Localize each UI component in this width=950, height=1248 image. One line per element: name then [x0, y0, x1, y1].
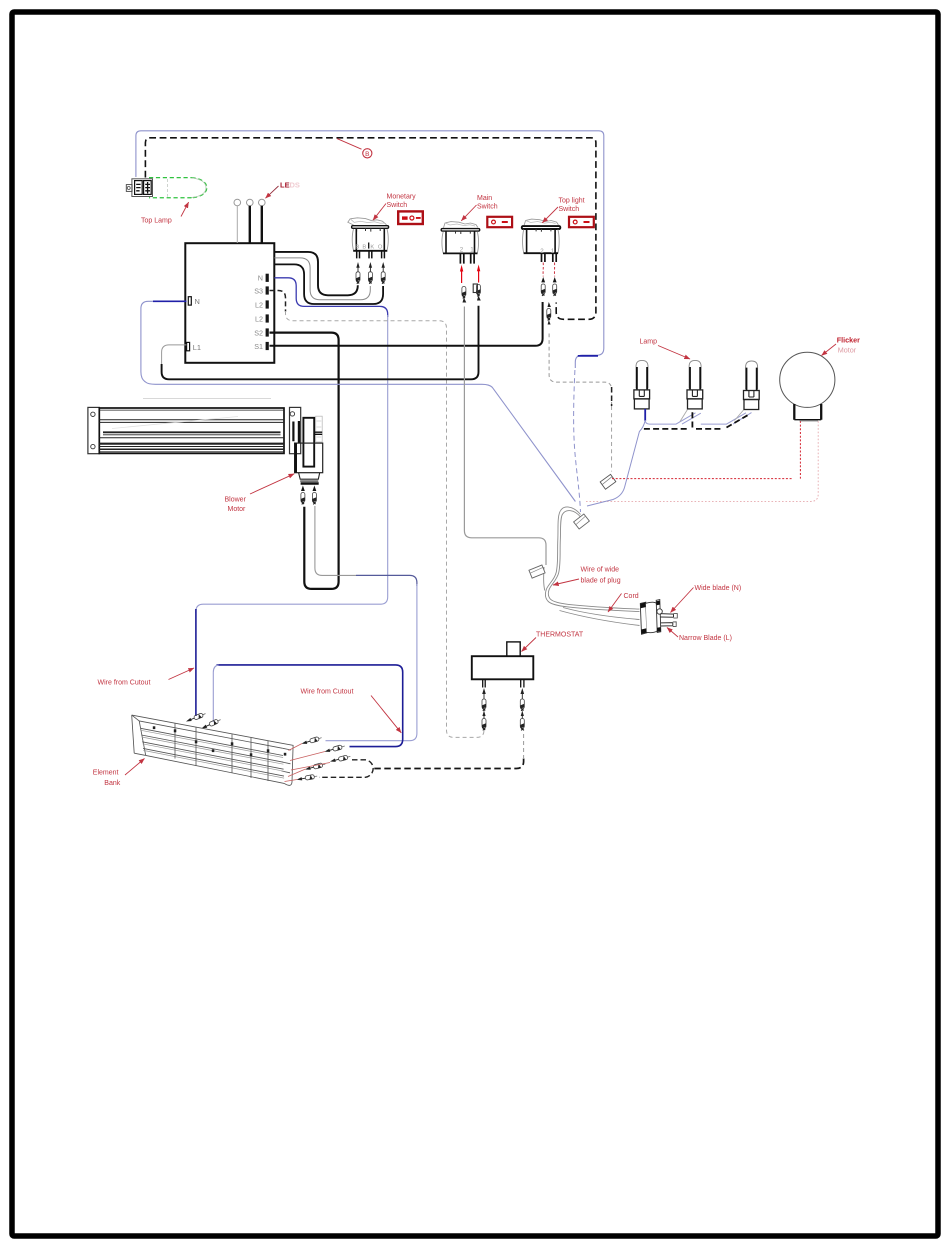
svg-text:L2: L2 — [255, 300, 263, 309]
svg-text:2: 2 — [460, 247, 464, 254]
svg-text:Main: Main — [477, 195, 492, 202]
svg-text:N: N — [258, 274, 263, 283]
svg-text:N: N — [195, 297, 200, 306]
svg-text:THERMOSTAT: THERMOSTAT — [536, 631, 584, 638]
svg-text:B: B — [355, 244, 359, 250]
svg-text:Switch: Switch — [477, 204, 498, 211]
svg-text:Narrow Blade (L): Narrow Blade (L) — [679, 635, 732, 642]
svg-text:Element: Element — [93, 769, 119, 776]
svg-text:Lamp: Lamp — [640, 338, 658, 345]
svg-text:Blower: Blower — [225, 497, 247, 504]
svg-text:LE: LE — [280, 180, 290, 189]
svg-text:S3: S3 — [254, 286, 263, 295]
svg-text:Bank: Bank — [104, 780, 120, 787]
svg-text:Wide blade (N): Wide blade (N) — [695, 585, 742, 592]
svg-text:blade of plug: blade of plug — [581, 578, 621, 585]
svg-text:L1: L1 — [193, 343, 201, 352]
svg-text:Switch: Switch — [387, 202, 408, 209]
svg-text:S2: S2 — [254, 328, 263, 337]
svg-text:Wire of wide: Wire of wide — [581, 567, 620, 574]
svg-text:DS: DS — [290, 180, 300, 189]
svg-text:Top light: Top light — [559, 198, 585, 205]
svg-text:K: K — [370, 244, 374, 250]
svg-text:Flicker: Flicker — [837, 336, 860, 345]
svg-text:Switch: Switch — [559, 206, 580, 213]
svg-text:Motor: Motor — [838, 345, 857, 354]
svg-text:Monetary: Monetary — [387, 194, 417, 201]
svg-text:O: O — [378, 244, 383, 250]
svg-text:Cord: Cord — [624, 593, 639, 600]
svg-text:Top Lamp: Top Lamp — [141, 218, 172, 225]
svg-text:S1: S1 — [254, 342, 263, 351]
svg-text:L2: L2 — [255, 314, 263, 323]
svg-text:B: B — [362, 244, 366, 250]
svg-text:1: 1 — [470, 247, 474, 254]
svg-text:Wire from Cutout: Wire from Cutout — [98, 680, 151, 687]
svg-text:Wire from Cutout: Wire from Cutout — [301, 689, 354, 696]
svg-text:Motor: Motor — [228, 506, 247, 513]
svg-text:B: B — [365, 151, 369, 158]
